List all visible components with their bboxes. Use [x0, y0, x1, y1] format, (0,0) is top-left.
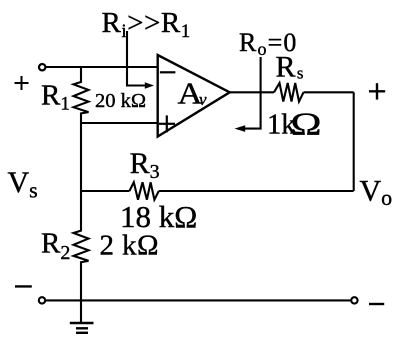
wire: R3 row right [159, 190, 354, 192]
input terminal circle top-left [39, 64, 45, 70]
wire: Ri annotation line with arrow [127, 31, 147, 86]
wire: Ro annotation line with arrow [244, 57, 261, 129]
minus sign right [369, 303, 384, 305]
svg-text:Ω: Ω [291, 106, 322, 142]
op-amp minus sign [160, 71, 176, 73]
svg-text:R1: R1 [41, 80, 70, 115]
svg-text:R3: R3 [130, 147, 160, 183]
wire: Rs to right corner [304, 91, 354, 93]
resistor R1 (vertical zigzag) [74, 67, 89, 123]
svg-text:Vs: Vs [8, 166, 38, 203]
svg-text:Rs: Rs [276, 51, 304, 84]
op-amp plus sign [159, 123, 175, 125]
resistor R2 (vertical zigzag) [74, 231, 89, 301]
plus sign right [369, 83, 385, 99]
resistor R3 (horizontal zigzag) [129, 182, 158, 199]
svg-text:v: v [199, 90, 207, 109]
ground [80, 300, 82, 323]
svg-text:Vo: Vo [360, 174, 393, 210]
svg-text:Ri>>R1: Ri>>R1 [102, 7, 191, 42]
svg-text:R2: R2 [41, 228, 70, 265]
wire: output wire [230, 91, 274, 93]
op-amp U1 triangle [158, 55, 230, 137]
svg-text:20 kΩ: 20 kΩ [95, 90, 146, 112]
terminal plus sign top-left [15, 76, 29, 90]
wire: R3 row left [81, 190, 129, 192]
wire: bottom rail [45, 299, 351, 301]
wire: left vertical rail [80, 123, 82, 232]
wire: right vertical [353, 92, 355, 191]
wire: plus-input wire [81, 122, 158, 124]
terminal circle bottom-right [351, 297, 357, 303]
terminal circle bottom-left [39, 297, 45, 303]
resistor Rs (horizontal zigzag) [274, 83, 304, 102]
minus sign left [15, 285, 32, 287]
svg-text:2 kΩ: 2 kΩ [100, 230, 159, 262]
wire: top input wire [45, 66, 158, 68]
